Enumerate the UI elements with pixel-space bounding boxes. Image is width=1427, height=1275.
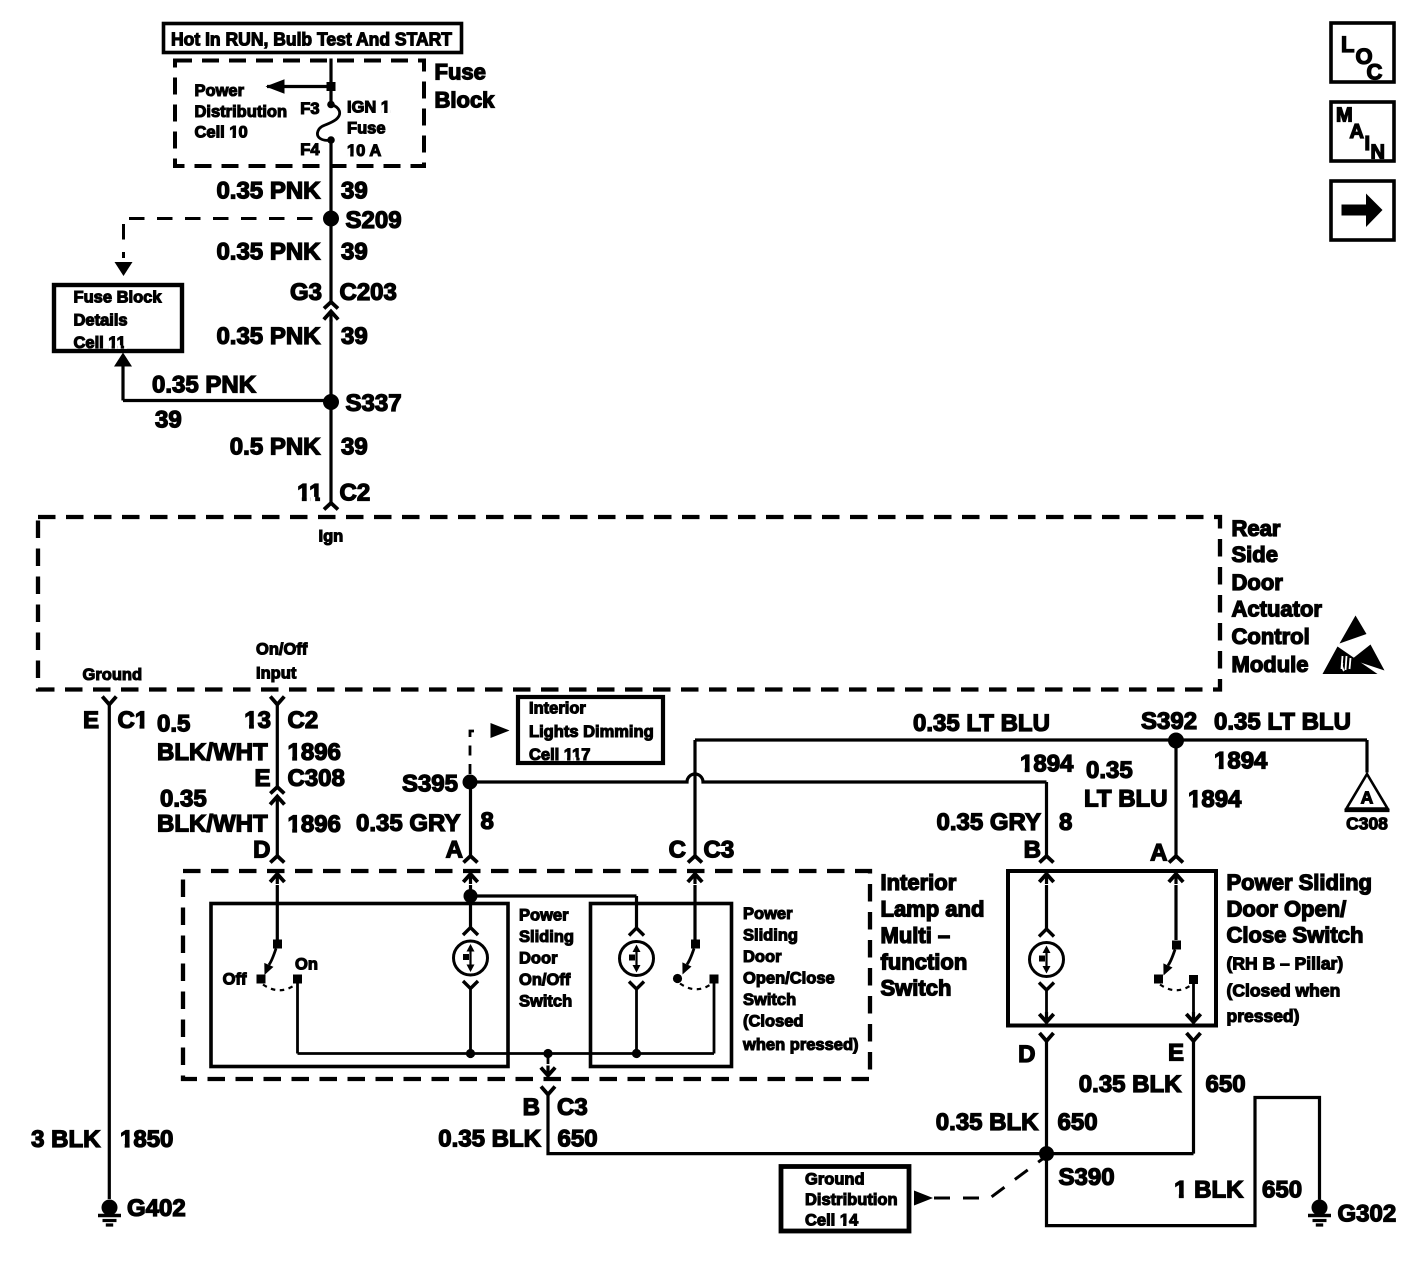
svg-text:Fuse: Fuse bbox=[347, 120, 386, 138]
svg-text:0.35: 0.35 bbox=[160, 786, 207, 813]
svg-text:Switch: Switch bbox=[519, 993, 572, 1011]
svg-text:Power Sliding: Power Sliding bbox=[1227, 870, 1372, 895]
svg-text:B: B bbox=[1024, 837, 1041, 864]
svg-text:Switch: Switch bbox=[881, 976, 952, 1001]
svg-text:A: A bbox=[446, 837, 463, 864]
svg-text:0.35 BLK: 0.35 BLK bbox=[438, 1126, 541, 1153]
svg-text:0.35 LT BLU: 0.35 LT BLU bbox=[1214, 709, 1351, 736]
svg-text:BLK/WHT: BLK/WHT bbox=[157, 811, 268, 838]
svg-text:39: 39 bbox=[341, 323, 368, 350]
svg-text:39: 39 bbox=[341, 434, 368, 461]
svg-text:Sliding: Sliding bbox=[519, 928, 574, 946]
svg-text:C203: C203 bbox=[340, 279, 397, 306]
svg-text:1896: 1896 bbox=[288, 739, 341, 766]
svg-text:S392: S392 bbox=[1141, 708, 1197, 735]
svg-text:Sliding: Sliding bbox=[743, 927, 798, 945]
svg-text:Interior: Interior bbox=[529, 700, 586, 718]
svg-text:Door: Door bbox=[743, 948, 782, 966]
svg-text:0.35 PNK: 0.35 PNK bbox=[152, 372, 257, 399]
svg-text:Door: Door bbox=[519, 950, 558, 968]
svg-text:Multi –: Multi – bbox=[881, 923, 951, 948]
svg-text:(RH B – Pillar): (RH B – Pillar) bbox=[1227, 954, 1344, 974]
svg-text:39: 39 bbox=[341, 178, 368, 205]
svg-text:Door Open/: Door Open/ bbox=[1227, 897, 1347, 922]
svg-text:L: L bbox=[1341, 32, 1354, 57]
svg-text:when pressed): when pressed) bbox=[742, 1036, 859, 1054]
svg-text:N: N bbox=[1371, 142, 1385, 164]
svg-text:0.35 PNK: 0.35 PNK bbox=[216, 239, 321, 266]
svg-text:Lights Dimming: Lights Dimming bbox=[529, 723, 654, 741]
svg-text:A: A bbox=[1350, 121, 1364, 143]
svg-text:(Closed: (Closed bbox=[743, 1013, 804, 1031]
svg-text:10 A: 10 A bbox=[347, 142, 381, 160]
svg-text:Open/Close: Open/Close bbox=[743, 970, 835, 988]
svg-text:Ground: Ground bbox=[83, 666, 143, 684]
svg-text:C3: C3 bbox=[557, 1094, 588, 1121]
svg-text:C1: C1 bbox=[118, 707, 149, 734]
svg-text:G302: G302 bbox=[1338, 1201, 1397, 1228]
svg-text:On: On bbox=[295, 956, 318, 974]
svg-text:G402: G402 bbox=[127, 1195, 186, 1222]
svg-text:E: E bbox=[1168, 1040, 1184, 1067]
svg-text:(Closed when: (Closed when bbox=[1227, 981, 1341, 1001]
svg-text:E: E bbox=[254, 765, 270, 792]
svg-text:C2: C2 bbox=[340, 480, 371, 507]
svg-text:Side: Side bbox=[1232, 542, 1278, 567]
svg-text:Input: Input bbox=[256, 665, 297, 683]
svg-text:A: A bbox=[1150, 840, 1167, 867]
svg-text:0.35 GRY: 0.35 GRY bbox=[356, 810, 461, 837]
svg-text:C308: C308 bbox=[1346, 814, 1388, 834]
svg-text:Cell 11: Cell 11 bbox=[74, 334, 126, 352]
svg-text:A: A bbox=[1361, 788, 1374, 808]
svg-text:Hot In RUN, Bulb Test And STAR: Hot In RUN, Bulb Test And START bbox=[171, 30, 452, 50]
svg-text:1 BLK: 1 BLK bbox=[1174, 1177, 1244, 1204]
svg-text:Control: Control bbox=[1232, 624, 1310, 649]
svg-text:11: 11 bbox=[297, 480, 322, 507]
svg-text:pressed): pressed) bbox=[1227, 1006, 1300, 1026]
svg-text:1850: 1850 bbox=[120, 1126, 173, 1153]
svg-text:39: 39 bbox=[155, 407, 182, 434]
svg-text:S209: S209 bbox=[346, 207, 402, 234]
svg-text:On/Off: On/Off bbox=[256, 641, 308, 659]
svg-text:F3: F3 bbox=[300, 100, 319, 118]
svg-text:0.35 BLK: 0.35 BLK bbox=[1079, 1071, 1182, 1098]
svg-text:C: C bbox=[669, 837, 686, 864]
svg-text:Rear: Rear bbox=[1232, 516, 1281, 541]
svg-text:Module: Module bbox=[1232, 652, 1309, 677]
svg-text:Close Switch: Close Switch bbox=[1227, 923, 1364, 948]
svg-text:C3: C3 bbox=[704, 837, 735, 864]
svg-text:Power: Power bbox=[519, 907, 569, 925]
svg-text:650: 650 bbox=[1206, 1071, 1246, 1098]
svg-text:0.35 LT BLU: 0.35 LT BLU bbox=[913, 710, 1050, 737]
svg-text:1896: 1896 bbox=[288, 811, 341, 838]
svg-text:function: function bbox=[881, 950, 968, 975]
svg-text:Cell 10: Cell 10 bbox=[195, 124, 248, 142]
svg-text:Distribution: Distribution bbox=[195, 103, 288, 121]
svg-text:Ign: Ign bbox=[319, 528, 344, 546]
svg-text:LT BLU: LT BLU bbox=[1084, 786, 1168, 813]
svg-text:Off: Off bbox=[223, 971, 247, 989]
svg-text:Fuse Block: Fuse Block bbox=[74, 289, 163, 307]
svg-text:Block: Block bbox=[435, 88, 496, 113]
svg-text:8: 8 bbox=[1059, 809, 1072, 836]
svg-text:C: C bbox=[1367, 60, 1383, 85]
svg-text:C308: C308 bbox=[288, 765, 345, 792]
svg-text:Distribution: Distribution bbox=[805, 1191, 898, 1209]
svg-text:BLK/WHT: BLK/WHT bbox=[157, 739, 268, 766]
svg-text:0.5 PNK: 0.5 PNK bbox=[230, 434, 321, 461]
svg-text:Power: Power bbox=[195, 82, 245, 100]
svg-text:1894: 1894 bbox=[1188, 786, 1242, 813]
svg-text:650: 650 bbox=[558, 1126, 598, 1153]
svg-text:0.35 GRY: 0.35 GRY bbox=[937, 809, 1042, 836]
svg-text:1894: 1894 bbox=[1020, 751, 1074, 778]
svg-text:Switch: Switch bbox=[743, 991, 796, 1009]
svg-text:3 BLK: 3 BLK bbox=[31, 1126, 101, 1153]
svg-text:Fuse: Fuse bbox=[435, 60, 486, 85]
svg-text:S395: S395 bbox=[402, 771, 458, 798]
svg-text:Power: Power bbox=[743, 905, 793, 923]
svg-text:13: 13 bbox=[244, 707, 271, 734]
svg-text:Interior: Interior bbox=[881, 870, 957, 895]
svg-text:0.5: 0.5 bbox=[157, 711, 190, 738]
svg-text:650: 650 bbox=[1262, 1177, 1302, 1204]
svg-text:Door: Door bbox=[1232, 570, 1284, 595]
svg-text:Cell 14: Cell 14 bbox=[805, 1212, 859, 1230]
svg-text:0.35 BLK: 0.35 BLK bbox=[936, 1109, 1039, 1136]
svg-text:0.35 PNK: 0.35 PNK bbox=[216, 323, 321, 350]
svg-text:1894: 1894 bbox=[1214, 748, 1268, 775]
svg-text:F4: F4 bbox=[300, 141, 320, 159]
svg-text:8: 8 bbox=[481, 808, 494, 835]
svg-text:E: E bbox=[83, 707, 99, 734]
svg-text:I: I bbox=[1365, 133, 1371, 155]
svg-text:0.35: 0.35 bbox=[1086, 757, 1133, 784]
svg-text:S337: S337 bbox=[346, 390, 402, 417]
svg-text:IGN 1: IGN 1 bbox=[347, 99, 390, 117]
svg-text:B: B bbox=[523, 1094, 540, 1121]
svg-text:D: D bbox=[253, 837, 270, 864]
svg-text:G3: G3 bbox=[290, 279, 322, 306]
svg-text:650: 650 bbox=[1058, 1109, 1098, 1136]
svg-text:C2: C2 bbox=[288, 707, 319, 734]
svg-text:Actuator: Actuator bbox=[1232, 597, 1323, 622]
svg-text:Cell 117: Cell 117 bbox=[529, 746, 590, 764]
svg-text:Ground: Ground bbox=[805, 1171, 865, 1189]
svg-text:On/Off: On/Off bbox=[519, 971, 571, 989]
svg-text:D: D bbox=[1018, 1041, 1035, 1068]
svg-text:S390: S390 bbox=[1059, 1164, 1115, 1191]
svg-text:0.35 PNK: 0.35 PNK bbox=[216, 178, 321, 205]
svg-text:Lamp and: Lamp and bbox=[881, 897, 985, 922]
svg-text:Details: Details bbox=[74, 312, 128, 330]
svg-text:39: 39 bbox=[341, 239, 368, 266]
